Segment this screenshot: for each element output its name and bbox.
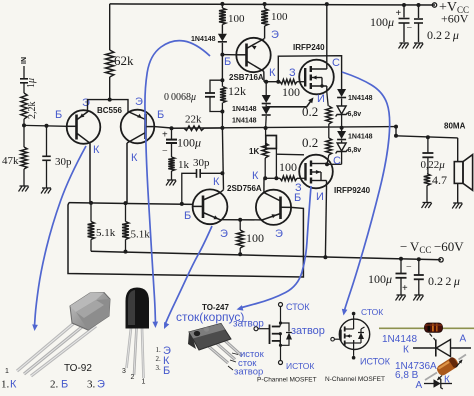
svg-text:−: − — [406, 262, 412, 273]
svg-text:К: К — [444, 375, 450, 386]
svg-text:100μ: 100μ — [177, 136, 201, 150]
wire +Vcc top rail — [110, 4, 435, 5]
resistor 62k — [106, 4, 135, 100]
svg-text:6,8v: 6,8v — [348, 147, 362, 154]
node c2 — [124, 201, 128, 205]
ground under 0.22u bottom — [413, 295, 423, 301]
node 5.1k bottom — [124, 250, 128, 254]
resistor 100 gate M2 — [264, 160, 304, 181]
wire emitters drivers — [220, 219, 262, 221]
svg-text:P-Channel MOSFET: P-Channel MOSFET — [257, 377, 317, 384]
label ISTOK N — [360, 357, 391, 367]
label TO-247 — [202, 303, 229, 312]
svg-text:1N4148: 1N4148 — [348, 134, 373, 141]
transistor Q1 BC556 left — [67, 110, 101, 144]
wire base1 — [24, 124, 67, 127]
wire collector Q5 — [263, 178, 265, 192]
svg-text:СТОК: СТОК — [361, 307, 383, 317]
svg-text:ТО-92: ТО-92 — [64, 363, 92, 374]
svg-text:К: К — [269, 67, 276, 79]
svg-text:Б: Б — [157, 109, 164, 121]
wire feedback loop — [68, 203, 303, 277]
svg-text:ИСТОК: ИСТОК — [286, 361, 314, 371]
node gate2 b — [274, 176, 278, 180]
arrows 1N4736A — [437, 360, 463, 381]
wire base 2SB716A — [222, 54, 236, 56]
resistor 5.1k second — [122, 203, 150, 252]
svg-text:Б: Б — [163, 365, 170, 377]
diode D2 1N4148 — [232, 82, 271, 113]
label lead1 TO-92 — [5, 368, 9, 375]
svg-text:30p: 30p — [55, 156, 72, 168]
capacitor 30p input — [42, 126, 72, 188]
svg-text:100: 100 — [246, 231, 264, 245]
svg-text:0.2: 0.2 — [302, 135, 318, 150]
label 6.8V — [395, 370, 419, 381]
package TO-92 — [17, 293, 110, 377]
diode D4 1N4148 clamp — [337, 89, 373, 106]
package 2SD756A black — [126, 288, 150, 379]
label K Q2 — [131, 152, 138, 164]
wire drain IRFP240 — [325, 2, 329, 64]
svg-text:100: 100 — [279, 160, 297, 174]
annotation arrow to source M1 — [267, 97, 314, 106]
wire collector Q1 — [89, 143, 91, 203]
svg-text:100: 100 — [271, 11, 288, 23]
svg-text:1: 1 — [142, 379, 146, 386]
wire — [23, 83, 25, 93]
svg-text:Э: Э — [82, 97, 90, 109]
node out2 — [340, 126, 344, 130]
svg-text:1.: 1. — [156, 346, 162, 354]
resistor 2.2k — [21, 93, 38, 119]
svg-text:Б: Б — [184, 210, 191, 222]
label 80MA — [444, 122, 466, 131]
svg-text:100μ: 100μ — [368, 272, 392, 286]
capacitor 0.0068u — [164, 80, 222, 111]
diode D3 1N4148 — [232, 105, 271, 125]
svg-text:2SD756A: 2SD756A — [227, 184, 262, 193]
ground under C100u top — [399, 43, 409, 49]
svg-text:К: К — [213, 176, 220, 188]
svg-text:IRFP9240: IRFP9240 — [334, 186, 371, 195]
diode D5 1N4148 clamp2 — [337, 128, 373, 141]
resistor 100 emitter 2SB716A — [261, 2, 288, 39]
svg-text:IN: IN — [21, 57, 28, 64]
wire collector Q2 — [126, 143, 128, 203]
resistor 5.1k first — [88, 203, 116, 251]
transistor Q3 2SB716A — [236, 38, 270, 72]
capacitor 30p fb — [182, 157, 225, 204]
svg-text:1k: 1k — [178, 159, 190, 171]
svg-text:К: К — [10, 379, 17, 391]
ground under 1k — [166, 180, 176, 186]
svg-text:1: 1 — [5, 368, 9, 375]
node rail 222 — [220, 2, 224, 6]
node input — [22, 123, 26, 127]
svg-text:12k: 12k — [228, 84, 246, 98]
ground under C0.22u top — [413, 43, 423, 49]
ground under 100u bottom — [396, 295, 406, 301]
svg-text:1N4148: 1N4148 — [191, 36, 216, 43]
svg-text:2.: 2. — [50, 379, 59, 391]
svg-text:1N4148: 1N4148 — [232, 106, 257, 113]
wire drain M2 — [323, 188, 327, 259]
label K zener — [444, 375, 450, 386]
label K diode — [403, 345, 409, 356]
label -Vcc — [400, 239, 464, 255]
node base 2SB716A — [220, 53, 224, 57]
resistor 12k — [220, 55, 246, 114]
diode D1 1N4148 top — [218, 34, 227, 55]
label stok korpus — [176, 310, 244, 324]
svg-text:IRFP240: IRFP240 — [293, 43, 325, 52]
node out right — [394, 125, 398, 138]
svg-text:1μ: 1μ — [26, 78, 37, 88]
svg-text:Э: Э — [275, 228, 283, 240]
resistor 0.2 top — [302, 92, 332, 128]
svg-text:К: К — [93, 144, 100, 156]
node gate2 a — [263, 176, 267, 180]
resistor 100 gate IRFP240 — [280, 79, 305, 99]
capacitor 100u fb — [162, 128, 201, 157]
svg-text:Э: Э — [220, 228, 228, 240]
node 30p — [45, 124, 49, 128]
diode symbol 1N4148 — [413, 340, 471, 357]
svg-text:затвор: затвор — [291, 325, 325, 337]
speaker — [454, 138, 472, 203]
label E Q3 — [271, 29, 279, 41]
label BC556 — [97, 106, 122, 115]
node source M2 — [325, 162, 329, 166]
wire — [23, 119, 25, 125]
arrow to TO-92 — [32, 146, 86, 331]
svg-text:3.: 3. — [156, 364, 162, 372]
ground under 4.7 — [422, 203, 432, 209]
svg-text:30p: 30p — [193, 157, 210, 169]
svg-text:+: + — [396, 8, 402, 19]
transistor Q2 BC556 right — [121, 110, 172, 144]
resistor 0.2 bottom — [302, 128, 332, 165]
wire VAS collector — [220, 112, 224, 190]
ground under 30p — [41, 188, 51, 194]
mosfet symbol P-channel — [254, 303, 292, 365]
svg-text:N-Channel MOSFET: N-Channel MOSFET — [325, 376, 385, 383]
label IN — [21, 57, 28, 64]
svg-text:Э: Э — [97, 379, 105, 391]
legend TO-92 — [1, 379, 105, 391]
svg-text:Э: Э — [271, 29, 279, 41]
svg-text:80MA: 80MA — [444, 122, 466, 131]
label K VAS — [213, 176, 220, 188]
wire input top — [23, 66, 25, 79]
svg-text:1.: 1. — [1, 379, 10, 391]
arrow to N-channel — [342, 72, 390, 316]
label B Q4 — [184, 210, 191, 222]
svg-text:3: 3 — [122, 368, 126, 375]
svg-text:Б: Б — [224, 56, 231, 68]
label K Q1 — [93, 144, 100, 156]
label 2SD756A — [227, 184, 262, 193]
svg-text:2.: 2. — [156, 355, 162, 363]
label A zener — [416, 380, 423, 391]
svg-text:Б: Б — [294, 192, 301, 204]
label TO-92 — [64, 363, 92, 374]
capacitor C 100u top — [370, 3, 413, 42]
mosfet M2 IRFP9240 — [299, 155, 333, 189]
svg-text:0.2 2 μ: 0.2 2 μ — [428, 274, 460, 288]
label 1N4736A — [395, 361, 437, 372]
capacitor C 0.22u top — [414, 3, 423, 42]
resistor 1k fb — [168, 157, 189, 180]
wire output line — [172, 127, 397, 129]
capacitor 0.22u bottom — [414, 257, 460, 294]
mosfet symbol N-channel — [331, 312, 370, 360]
resistor 100 left top — [219, 4, 245, 34]
arrow S to package A — [145, 41, 210, 328]
photo 1N4736A — [425, 355, 466, 381]
label +Vcc — [439, 0, 469, 26]
svg-text:22k: 22k — [185, 114, 202, 126]
package TO-247 — [188, 324, 242, 364]
svg-text:1N4148: 1N4148 — [348, 95, 373, 102]
label E Q1 — [82, 97, 90, 109]
label C M1 — [332, 57, 340, 69]
svg-text:0.2: 0.2 — [302, 104, 318, 119]
node emitter res — [238, 218, 242, 222]
zener Z2 6.8v — [336, 141, 362, 165]
label B Q5 — [294, 192, 301, 204]
node gate1 diode chain — [264, 80, 268, 84]
label ISTOK P — [286, 361, 314, 371]
mosfet M1 IRFP240 — [299, 60, 334, 95]
node gate1 clamp — [276, 80, 280, 84]
label K driver — [252, 170, 259, 182]
svg-text:−: − — [407, 23, 413, 34]
svg-text:2,2k: 2,2k — [27, 102, 38, 120]
photo 1N4148 — [379, 323, 474, 332]
resistor 47k — [2, 125, 27, 186]
wire clamp2 to source — [327, 163, 342, 165]
zener Z1 6.8v — [336, 106, 362, 128]
label IRFP240 — [293, 43, 325, 52]
arrow to package B — [164, 226, 212, 329]
svg-text:И: И — [316, 191, 324, 203]
label zatvor N — [291, 325, 325, 337]
label P-Channel MOSFET — [257, 377, 317, 384]
legend black pkg — [156, 345, 172, 377]
svg-text:+: + — [402, 283, 408, 294]
svg-text:100: 100 — [228, 13, 245, 25]
label E Q5 — [275, 228, 283, 240]
node c1 — [89, 201, 93, 205]
label E Q2 — [135, 96, 143, 108]
svg-text:100μ: 100μ — [370, 15, 394, 29]
resistor 4.7 — [424, 173, 447, 203]
svg-text:З: З — [289, 67, 296, 79]
svg-text:К: К — [403, 345, 409, 356]
label K Q3 — [269, 67, 276, 79]
svg-text:Э: Э — [135, 96, 143, 108]
svg-text:Б: Б — [55, 109, 62, 121]
label A diode — [460, 334, 467, 345]
svg-text:4.7: 4.7 — [432, 173, 447, 187]
svg-text:5.1k: 5.1k — [131, 229, 151, 241]
node tail — [108, 98, 112, 102]
resistor 1K box — [249, 128, 304, 178]
label 2SB716A — [229, 73, 264, 82]
svg-text:А: А — [460, 334, 467, 345]
svg-text:СТОК: СТОК — [286, 302, 310, 312]
label 0.22u top — [427, 28, 459, 42]
labels leads black pkg — [122, 368, 146, 386]
terminal -Vcc — [439, 258, 443, 262]
svg-text:2SB716A: 2SB716A — [229, 73, 264, 82]
transistor Q4 2SD756A — [193, 189, 228, 224]
svg-text:К: К — [131, 152, 138, 164]
ground under speaker — [452, 203, 462, 209]
label Z M2 — [295, 182, 302, 194]
wire base line 2SD756A — [69, 203, 193, 205]
label D1 — [191, 36, 216, 43]
svg-text:0.2 2 μ: 0.2 2 μ — [427, 28, 459, 42]
capacitor 100u bottom — [368, 257, 412, 295]
svg-text:−: − — [162, 146, 168, 157]
resistor 100 emitter drivers — [237, 220, 264, 256]
node out1 — [264, 126, 268, 130]
label B Q1 — [55, 109, 62, 121]
svg-text:1N4148: 1N4148 — [382, 334, 417, 345]
svg-text:0 0068μ: 0 0068μ — [164, 92, 196, 103]
svg-text:С: С — [332, 57, 340, 69]
svg-text:К: К — [252, 170, 259, 182]
svg-text:затвор: затвор — [233, 319, 264, 330]
svg-text:3.: 3. — [87, 379, 96, 391]
capacitor 1u input — [20, 78, 37, 88]
pointer dashes — [430, 334, 437, 342]
wire collector Q4 — [220, 190, 224, 193]
node fb — [170, 126, 174, 130]
svg-text:100: 100 — [282, 85, 300, 99]
label zatvor P — [233, 319, 264, 330]
label STOK N — [361, 307, 383, 317]
wire emitters — [88, 100, 129, 112]
label STOK P — [286, 302, 310, 312]
wire to speaker — [396, 136, 458, 138]
svg-text:ИСТОК: ИСТОК — [360, 357, 391, 367]
svg-text:47k: 47k — [2, 155, 19, 167]
svg-text:С: С — [333, 155, 341, 167]
label N-Channel MOSFET — [325, 376, 385, 383]
wire clamp top — [278, 56, 341, 89]
svg-text:0,22μ: 0,22μ — [421, 159, 446, 171]
arrow to P-channel — [237, 186, 312, 311]
label Z M1 — [289, 67, 296, 79]
terminal +Vcc — [432, 3, 436, 7]
label B Q3 — [224, 56, 231, 68]
zener symbol 1N4736A — [424, 378, 452, 389]
svg-text:Б: Б — [61, 379, 68, 391]
label I M2 — [316, 191, 324, 203]
wire — [265, 116, 268, 128]
label C M2 — [333, 155, 341, 167]
wire -Vcc rail — [91, 251, 441, 259]
svg-text:BC556: BC556 — [97, 106, 122, 115]
label B Q2 — [157, 109, 164, 121]
label E Q4 — [220, 228, 228, 240]
resistor 22k — [172, 114, 223, 131]
label I M1 — [317, 93, 325, 105]
svg-text:1K: 1K — [249, 147, 259, 156]
svg-text:6,8v: 6,8v — [348, 111, 362, 118]
capacitor 0.22u zobel — [421, 135, 446, 173]
transistor Q5 driver right — [256, 190, 291, 225]
svg-text:62k: 62k — [114, 53, 134, 68]
ground under 47k — [19, 186, 29, 192]
svg-text:+60V: +60V — [441, 12, 469, 26]
svg-text:1N4148: 1N4148 — [232, 118, 257, 125]
svg-text:А: А — [416, 380, 423, 391]
labels TO-247 leads — [228, 349, 265, 378]
svg-text:2: 2 — [131, 374, 135, 381]
node 30p2 — [180, 202, 184, 206]
wire collector 2SB716A — [264, 71, 279, 81]
svg-text:5.1k: 5.1k — [96, 227, 116, 239]
svg-text:− VCC −60V: − VCC −60V — [400, 239, 464, 255]
label IRFP9240 — [334, 186, 371, 195]
label 1N4148 photo — [382, 334, 417, 345]
